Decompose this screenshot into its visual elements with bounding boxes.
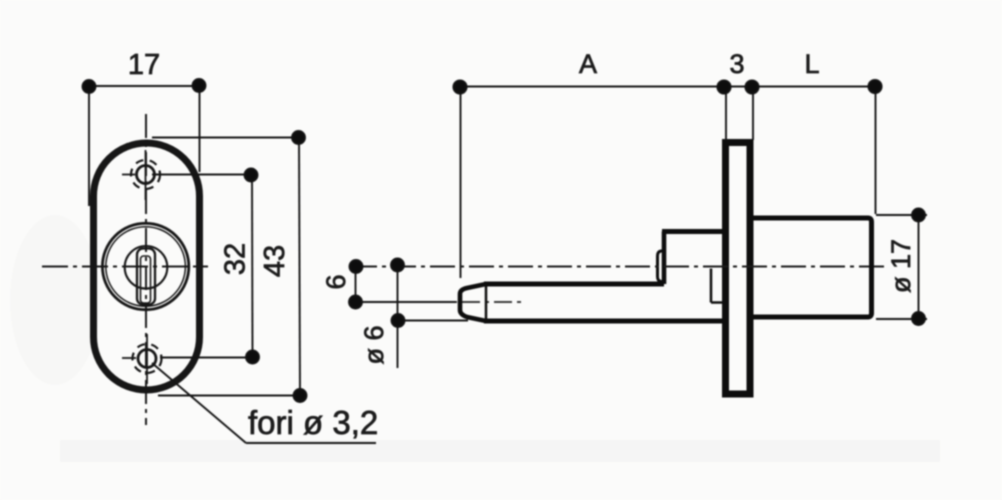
svg-text:3: 3 — [729, 49, 744, 79]
svg-text:fori ø 3,2: fori ø 3,2 — [248, 404, 378, 441]
svg-text:6: 6 — [321, 274, 351, 289]
svg-text:A: A — [579, 49, 597, 79]
svg-text:ø 6: ø 6 — [359, 325, 389, 364]
svg-text:L: L — [804, 49, 819, 79]
svg-text:32: 32 — [220, 243, 252, 275]
svg-text:43: 43 — [259, 245, 291, 277]
svg-text:ø 17: ø 17 — [886, 239, 916, 293]
svg-text:17: 17 — [128, 49, 160, 81]
